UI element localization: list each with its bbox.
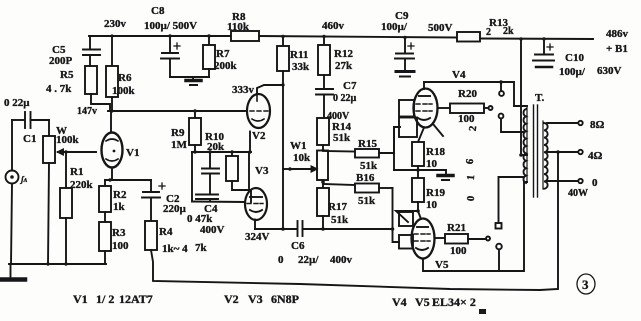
wire R11 bottom long vertical (281, 71, 285, 231)
wire R16 to V5 grid (393, 188, 400, 242)
svg-text:630V: 630V (597, 65, 622, 77)
capacitor C6 (278, 221, 353, 266)
svg-text:0 22µ: 0 22µ (4, 97, 30, 109)
resistor R9 (171, 109, 201, 153)
svg-text:0: 0 (466, 195, 477, 201)
svg-text:R17: R17 (328, 201, 347, 213)
svg-text:3: 3 (582, 277, 589, 292)
wire transformer center tap (519, 37, 527, 157)
transformer T secondary (543, 121, 548, 189)
resistor R7 (203, 34, 238, 77)
wire V1 cathode node (105, 178, 151, 181)
svg-text:51k: 51k (331, 214, 349, 226)
output tap 8 ohm (547, 119, 605, 131)
resistor R17 (317, 180, 349, 229)
capacitor C10 (533, 37, 622, 78)
transformer core (534, 105, 538, 197)
svg-text:R7: R7 (216, 48, 230, 60)
wire R19 to V5 cathode (396, 211, 421, 222)
svg-text:V1: V1 (126, 147, 139, 159)
node 460v (322, 20, 345, 32)
resistor R5 (46, 66, 110, 111)
svg-text:R4: R4 (159, 226, 173, 238)
resistor R19 (412, 170, 445, 213)
capacitor C9 (381, 10, 453, 70)
wire V3 cathode line (255, 228, 296, 230)
output tap 0 (547, 177, 598, 199)
svg-text:100µ/ 500V: 100µ/ 500V (144, 20, 197, 32)
svg-text:460v: 460v (322, 20, 345, 32)
resistor R21 (435, 222, 491, 257)
svg-text:400v: 400v (330, 254, 353, 266)
capacitor C8 (144, 5, 197, 77)
ground symbol (1, 184, 25, 280)
svg-text:R3: R3 (112, 227, 126, 239)
wire R18 bottom node (394, 127, 446, 170)
ground bus (9, 262, 106, 265)
potentiometer W1 (283, 140, 328, 180)
svg-text:V3: V3 (255, 165, 269, 177)
svg-text:V4: V4 (392, 295, 407, 309)
capacitor C3 (202, 150, 219, 193)
resistor R2 (99, 180, 127, 213)
svg-text:4Ω: 4Ω (588, 150, 603, 162)
svg-text:C8: C8 (151, 5, 165, 17)
resistor R16 (323, 172, 393, 207)
capacitor C4 (187, 195, 225, 237)
wire rail right segment (480, 38, 593, 41)
svg-text:27k: 27k (335, 60, 353, 72)
wire V4 plate to transformer (424, 80, 527, 106)
svg-text:1: 1 (466, 174, 477, 180)
svg-text:200k: 200k (214, 60, 238, 72)
capacitor C2 (142, 180, 187, 221)
svg-text:W1: W1 (290, 140, 307, 152)
svg-text:6N8P: 6N8P (271, 292, 299, 306)
svg-text:8Ω: 8Ω (590, 119, 605, 131)
svg-text:40W: 40W (568, 188, 588, 199)
wire rail mid segment (259, 36, 457, 38)
svg-text:100: 100 (458, 113, 475, 125)
svg-text:R11: R11 (290, 49, 308, 61)
svg-text:100k: 100k (112, 85, 136, 97)
svg-text:200P: 200P (49, 55, 73, 67)
terminal plug V4 plate (499, 82, 504, 96)
ground under C9 (396, 72, 414, 77)
svg-text:110k: 110k (227, 21, 250, 33)
ground at R18 (438, 170, 453, 180)
resistor R1 (60, 152, 94, 264)
svg-text:R21: R21 (447, 222, 466, 234)
wire C3 network left edge (191, 152, 193, 202)
svg-text:100: 100 (450, 245, 467, 257)
wire B+ top rail left segment (89, 34, 231, 37)
transformer T primary (524, 92, 545, 183)
svg-text:51k: 51k (333, 132, 351, 144)
node 333v (232, 84, 255, 96)
svg-text:4 . 7k: 4 . 7k (46, 83, 72, 95)
svg-text:6: 6 (465, 158, 476, 164)
svg-text:1M: 1M (171, 139, 188, 151)
terminal plug V4 screen tap (499, 114, 523, 132)
label V4 V5 tube type (392, 295, 486, 314)
svg-text:R1: R1 (70, 166, 83, 178)
svg-text:12AT7: 12AT7 (119, 292, 153, 306)
svg-text:B16: B16 (356, 172, 375, 184)
svg-text:10: 10 (426, 199, 438, 211)
svg-text:100µ/: 100µ/ (559, 66, 586, 78)
svg-text:10k: 10k (293, 152, 311, 164)
svg-text:486v: 486v (606, 28, 629, 40)
svg-text:230v: 230v (104, 18, 127, 30)
resistor R6 (106, 36, 136, 111)
wire V2 cathode (249, 132, 251, 153)
resistor R10 (205, 131, 251, 202)
resistor R13 (457, 17, 514, 42)
capacitor C1 (4, 97, 49, 145)
svg-text:2: 2 (486, 27, 491, 38)
svg-text:333v: 333v (232, 84, 255, 96)
potentiometer W (43, 120, 80, 264)
pin digits rotated (465, 125, 479, 201)
grid boxes V4 (399, 100, 417, 137)
svg-text:R9: R9 (171, 127, 185, 139)
svg-text:V1: V1 (73, 292, 88, 306)
svg-text:33k: 33k (292, 61, 310, 73)
svg-text:V4: V4 (452, 69, 466, 81)
wire C6 to V5 grid (303, 227, 395, 231)
resistor R18 (412, 142, 445, 172)
svg-text:324V: 324V (245, 231, 270, 243)
svg-text:100: 100 (112, 240, 129, 252)
svg-text:R6: R6 (118, 72, 132, 84)
grid boxes V5 (399, 212, 413, 249)
resistor R4 (145, 221, 208, 255)
svg-text:0 22µ: 0 22µ (333, 93, 357, 104)
node 147v (77, 106, 97, 117)
svg-text:400V: 400V (200, 224, 225, 236)
svg-text:R5: R5 (60, 69, 74, 81)
svg-text:0: 0 (278, 254, 284, 266)
svg-text:51k: 51k (358, 195, 376, 207)
wire feedback from 4 ohm tap (151, 152, 558, 290)
svg-text:+ B1: + B1 (606, 43, 628, 55)
svg-text:R12: R12 (334, 48, 353, 60)
svg-text:EL34× 2: EL34× 2 (432, 295, 476, 309)
svg-text:C7: C7 (343, 80, 357, 92)
pentode V5 (412, 219, 449, 272)
svg-text:V2: V2 (252, 130, 266, 142)
svg-text:1k: 1k (113, 201, 126, 213)
wire V4 cathode (418, 128, 424, 143)
svg-text:R15: R15 (358, 138, 377, 150)
node 486v +B1 (606, 28, 629, 55)
resistor R3 (99, 212, 129, 264)
svg-text:1k~ 4: 1k~ 4 (162, 243, 188, 255)
terminal plug V5 screen tap (496, 177, 524, 229)
svg-text:2k: 2k (503, 26, 514, 37)
resistor R20 (438, 88, 493, 125)
ground under R7 (186, 77, 201, 85)
svg-text:0: 0 (592, 177, 598, 189)
svg-text:R20: R20 (458, 88, 477, 100)
svg-text:2: 2 (468, 125, 479, 131)
label V1 tube type (73, 292, 153, 306)
svg-text:C1: C1 (23, 133, 36, 145)
svg-text:T.: T. (535, 92, 545, 104)
input terminal J1 (6, 120, 28, 184)
triode V2 (247, 85, 283, 142)
svg-text:V3: V3 (248, 292, 263, 306)
resistor R12 (318, 35, 353, 75)
label V2 V3 tube type (224, 292, 299, 306)
output tap 4 ohm (547, 150, 603, 162)
resistor R15 (323, 138, 394, 172)
svg-text:51k: 51k (360, 160, 378, 172)
svg-text:V5: V5 (415, 295, 430, 309)
svg-text:22µ/: 22µ/ (298, 254, 319, 266)
svg-text:7k: 7k (195, 242, 208, 254)
wire V2 cathode rail (192, 150, 252, 153)
svg-text:V5: V5 (435, 259, 449, 271)
svg-text:C10: C10 (565, 52, 584, 64)
svg-text:ʃʌ: ʃʌ (19, 175, 28, 184)
wire V1 plate to V2 grid (108, 109, 245, 112)
figure number 3 (577, 274, 595, 294)
svg-text:1/ 2: 1/ 2 (96, 292, 114, 306)
svg-text:220µ: 220µ (163, 203, 187, 215)
svg-text:100k: 100k (56, 134, 80, 146)
wire C8/R7 bottoms (170, 76, 209, 78)
svg-text:147v: 147v (77, 106, 97, 117)
resistor R14 (317, 118, 351, 152)
node 324V (245, 231, 270, 243)
svg-text:100µ/: 100µ/ (381, 21, 408, 33)
wire network bottom to V3 grid (192, 201, 245, 204)
pentode V4 (414, 69, 466, 136)
svg-text:500V: 500V (428, 22, 453, 34)
triode V1 (102, 111, 140, 180)
capacitor C5 (49, 36, 100, 67)
wire R15 to V4 grid (394, 127, 400, 153)
wire W wiper to V1 grid (64, 150, 96, 153)
capacitor C7 (316, 75, 357, 122)
svg-text:20k: 20k (207, 141, 225, 153)
svg-text:R19: R19 (426, 187, 445, 199)
terminal plug V5 lower (496, 244, 502, 271)
svg-text:220k: 220k (70, 179, 94, 191)
resistor R11 (277, 35, 310, 73)
wire V5 plate to transformer (423, 182, 527, 271)
triode V3 (245, 152, 269, 229)
svg-text:10: 10 (426, 158, 438, 170)
svg-text:C6: C6 (291, 240, 305, 252)
svg-text:V2: V2 (224, 292, 239, 306)
svg-text:R2: R2 (113, 189, 127, 201)
svg-text:R18: R18 (426, 146, 445, 158)
node 230v (104, 18, 127, 30)
resistor R8 (227, 11, 259, 41)
